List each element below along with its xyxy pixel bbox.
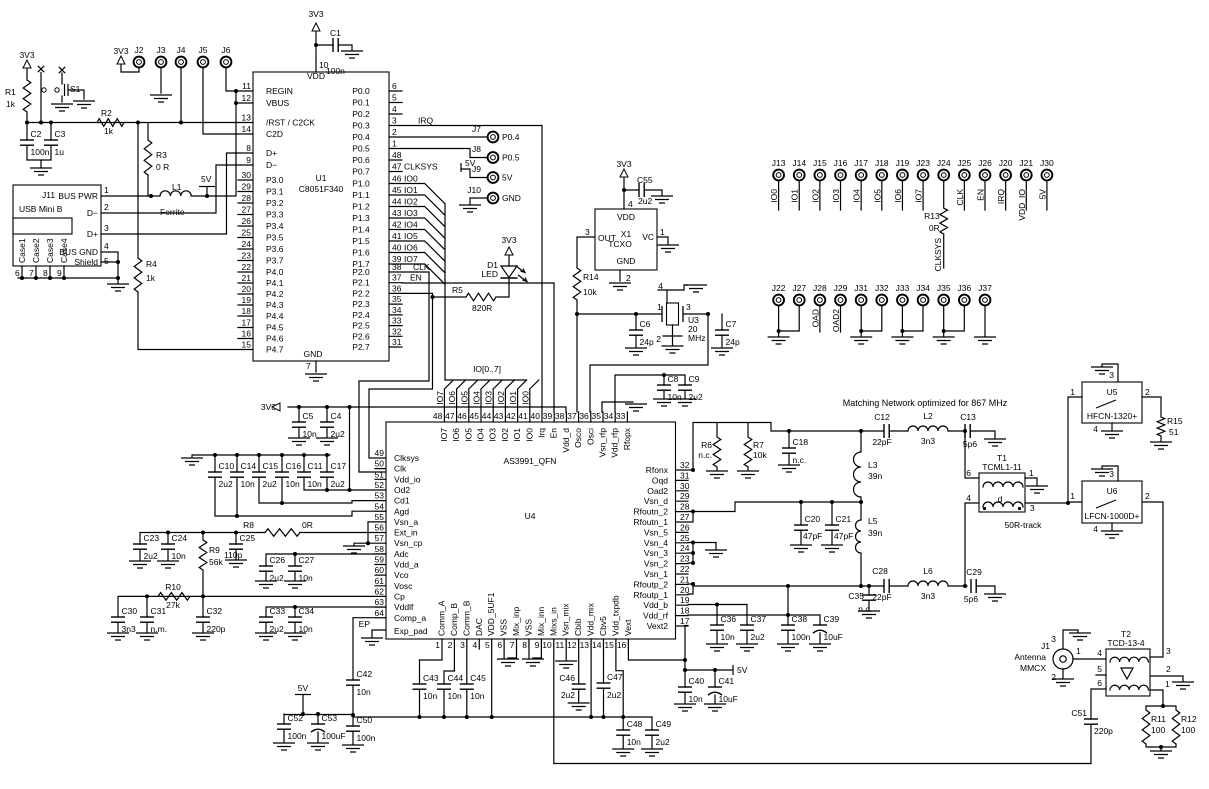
svg-text:1: 1 <box>1029 468 1034 478</box>
svg-text:R13: R13 <box>924 211 940 221</box>
svg-text:C7: C7 <box>726 319 737 329</box>
svg-text:100: 100 <box>1181 725 1195 735</box>
svg-text:IO6: IO6 <box>404 243 418 253</box>
svg-text:5V: 5V <box>201 174 212 184</box>
svg-text:IRQ: IRQ <box>418 116 434 126</box>
svg-text:J24: J24 <box>937 158 951 168</box>
svg-text:Irq: Irq <box>537 428 547 438</box>
svg-text:L5: L5 <box>868 516 878 526</box>
svg-text:J19: J19 <box>896 158 910 168</box>
svg-text:CLK: CLK <box>955 189 965 206</box>
svg-text:4: 4 <box>628 199 633 209</box>
svg-text:19: 19 <box>680 595 690 605</box>
svg-text:5: 5 <box>1097 664 1102 674</box>
svg-text:R9: R9 <box>209 545 220 555</box>
svg-text:8: 8 <box>522 640 527 650</box>
svg-text:1: 1 <box>104 185 109 195</box>
svg-text:D+: D+ <box>87 229 98 239</box>
svg-text:12: 12 <box>567 640 577 650</box>
svg-text:C26: C26 <box>270 555 286 565</box>
svg-text:VSS: VSS <box>499 619 509 636</box>
svg-text:59: 59 <box>375 555 385 565</box>
svg-text:42: 42 <box>392 220 402 230</box>
svg-text:C2D: C2D <box>266 129 283 139</box>
svg-text:6: 6 <box>392 81 397 91</box>
svg-text:P4.5: P4.5 <box>266 323 284 333</box>
svg-text:IO3: IO3 <box>831 189 841 203</box>
svg-text:J15: J15 <box>813 158 827 168</box>
svg-text:C3: C3 <box>55 129 66 139</box>
svg-text:J17: J17 <box>854 158 868 168</box>
svg-text:43: 43 <box>392 208 402 218</box>
svg-text:IO4: IO4 <box>476 428 486 442</box>
svg-text:30: 30 <box>242 170 252 180</box>
svg-text:P3.7: P3.7 <box>266 256 284 266</box>
svg-text:100: 100 <box>1151 725 1165 735</box>
svg-text:Vosc: Vosc <box>394 581 413 591</box>
svg-text:P0.0: P0.0 <box>352 86 370 96</box>
svg-text:C32: C32 <box>207 606 223 616</box>
svg-text:50: 50 <box>375 459 385 469</box>
svg-text:31: 31 <box>680 470 690 480</box>
svg-text:IO4: IO4 <box>404 220 418 230</box>
svg-text:45: 45 <box>392 185 402 195</box>
svg-text:IO6: IO6 <box>893 189 903 203</box>
svg-text:C29: C29 <box>966 567 982 577</box>
svg-text:MHz: MHz <box>688 333 705 343</box>
svg-text:Vsn_rfp: Vsn_rfp <box>598 428 608 458</box>
svg-text:100n: 100n <box>792 632 811 642</box>
svg-text:P0.4: P0.4 <box>502 132 520 142</box>
svg-text:J30: J30 <box>1040 158 1054 168</box>
svg-text:2u2: 2u2 <box>561 690 575 700</box>
svg-text:4: 4 <box>1093 424 1098 434</box>
svg-text:12: 12 <box>242 93 252 103</box>
svg-text:C45: C45 <box>470 673 486 683</box>
svg-text:5p6: 5p6 <box>963 439 977 449</box>
svg-text:5V: 5V <box>465 158 476 168</box>
svg-text:0R: 0R <box>302 520 313 530</box>
svg-text:10n: 10n <box>308 479 322 489</box>
svg-text:Vco: Vco <box>394 570 409 580</box>
svg-text:16: 16 <box>242 329 252 339</box>
svg-text:Comm_B: Comm_B <box>461 600 471 636</box>
svg-text:J16: J16 <box>834 158 848 168</box>
svg-text:C11: C11 <box>308 461 323 471</box>
svg-text:J4: J4 <box>177 45 186 55</box>
svg-text:Comp_a: Comp_a <box>394 613 426 623</box>
svg-text:J8: J8 <box>472 144 481 154</box>
svg-text:Vdd_txpdb: Vdd_txpdb <box>610 595 620 636</box>
svg-text:U5: U5 <box>1107 387 1118 397</box>
svg-text:1u: 1u <box>55 147 65 157</box>
svg-text:En: En <box>549 428 559 439</box>
svg-text:3: 3 <box>104 223 109 233</box>
svg-text:4: 4 <box>966 493 971 503</box>
svg-text:J27: J27 <box>792 283 806 293</box>
svg-text:6: 6 <box>1097 678 1102 688</box>
svg-text:J33: J33 <box>896 283 910 293</box>
svg-text:Vsn_2: Vsn_2 <box>644 559 668 569</box>
svg-text:42: 42 <box>506 411 516 421</box>
svg-text:J22: J22 <box>772 283 786 293</box>
svg-text:J7: J7 <box>472 124 481 134</box>
svg-text:1: 1 <box>1076 646 1081 656</box>
svg-text:VSS: VSS <box>523 619 533 636</box>
svg-text:U6: U6 <box>1107 486 1118 496</box>
svg-text:IO7: IO7 <box>439 428 449 442</box>
svg-text:3V3: 3V3 <box>113 46 128 56</box>
svg-text:2u2: 2u2 <box>263 479 277 489</box>
svg-text:J1: J1 <box>1041 641 1050 651</box>
svg-text:C33: C33 <box>270 606 286 616</box>
svg-text:GND: GND <box>304 349 323 359</box>
svg-text:10n: 10n <box>627 737 641 747</box>
svg-text:2: 2 <box>1051 672 1056 682</box>
svg-text:22: 22 <box>680 564 690 574</box>
svg-text:Rfoutn_1: Rfoutn_1 <box>634 517 669 527</box>
svg-text:39: 39 <box>543 411 553 421</box>
svg-text:3: 3 <box>1030 503 1035 513</box>
svg-text:14: 14 <box>242 124 252 134</box>
svg-text:R4: R4 <box>146 259 157 269</box>
svg-text:IO3: IO3 <box>484 391 494 405</box>
svg-text:VDD: VDD <box>307 71 325 81</box>
svg-text:10n: 10n <box>689 694 703 704</box>
svg-text:Vsn_5: Vsn_5 <box>644 527 668 537</box>
svg-text:Rfoutp_1: Rfoutp_1 <box>634 590 669 600</box>
svg-text:24p: 24p <box>640 337 654 347</box>
svg-text:P2.0: P2.0 <box>352 267 370 277</box>
svg-text:R3: R3 <box>156 150 167 160</box>
svg-text:24p: 24p <box>726 337 740 347</box>
svg-text:Mix_inp: Mix_inp <box>511 606 521 636</box>
svg-text:TCD-13-4: TCD-13-4 <box>1107 638 1145 648</box>
svg-text:28: 28 <box>680 502 690 512</box>
svg-text:R2: R2 <box>101 108 112 118</box>
svg-text:J35: J35 <box>937 283 951 293</box>
svg-text:LED: LED <box>481 269 498 279</box>
svg-text:3: 3 <box>585 227 590 237</box>
svg-text:23: 23 <box>680 554 690 564</box>
svg-text:IO7: IO7 <box>914 189 924 203</box>
svg-text:10n: 10n <box>470 691 484 701</box>
svg-text:C53: C53 <box>322 713 338 723</box>
svg-text:2: 2 <box>104 202 109 212</box>
svg-text:C4: C4 <box>331 411 342 421</box>
svg-text:Vdd_rfp: Vdd_rfp <box>610 428 620 458</box>
svg-text:P3.0: P3.0 <box>266 175 284 185</box>
svg-text:/RST / C2CK: /RST / C2CK <box>266 118 315 128</box>
svg-text:4: 4 <box>1093 524 1098 534</box>
svg-text:Rfonx: Rfonx <box>646 465 669 475</box>
svg-text:Exp_pad: Exp_pad <box>394 626 428 636</box>
svg-text:P2.3: P2.3 <box>352 299 370 309</box>
svg-text:J10: J10 <box>467 185 481 195</box>
svg-text:Case4: Case4 <box>59 238 69 263</box>
svg-text:P4.7: P4.7 <box>266 345 284 355</box>
svg-text:C25: C25 <box>240 533 256 543</box>
svg-text:8: 8 <box>43 268 48 278</box>
svg-text:4: 4 <box>392 104 397 114</box>
svg-text:14: 14 <box>592 640 602 650</box>
svg-text:J6: J6 <box>222 45 231 55</box>
svg-text:32: 32 <box>392 326 402 336</box>
svg-text:Vddlf: Vddlf <box>394 602 414 612</box>
svg-text:2u2: 2u2 <box>331 479 345 489</box>
svg-text:2u2: 2u2 <box>689 392 703 402</box>
svg-text:5: 5 <box>485 640 490 650</box>
svg-text:J32: J32 <box>875 283 889 293</box>
svg-text:L2: L2 <box>923 411 933 421</box>
svg-text:18: 18 <box>242 306 252 316</box>
svg-text:4: 4 <box>1097 648 1102 658</box>
svg-text:10uF: 10uF <box>824 632 843 642</box>
svg-text:6: 6 <box>497 640 502 650</box>
svg-text:Oad2: Oad2 <box>647 486 668 496</box>
svg-text:1: 1 <box>435 640 440 650</box>
svg-text:P1.5: P1.5 <box>352 236 370 246</box>
svg-text:Agd: Agd <box>394 506 409 516</box>
svg-text:63: 63 <box>375 597 385 607</box>
svg-text:IO7: IO7 <box>435 391 445 405</box>
svg-text:C1: C1 <box>330 28 341 38</box>
svg-text:VDD: VDD <box>617 212 635 222</box>
svg-text:40: 40 <box>531 411 541 421</box>
svg-text:27: 27 <box>242 205 252 215</box>
svg-text:29: 29 <box>242 182 252 192</box>
svg-text:C24: C24 <box>172 533 188 543</box>
svg-text:0 R: 0 R <box>156 162 169 172</box>
svg-text:C35: C35 <box>848 591 864 601</box>
svg-text:OUT: OUT <box>598 233 616 243</box>
svg-text:Vsn_4: Vsn_4 <box>644 538 668 548</box>
svg-text:3: 3 <box>460 640 465 650</box>
svg-text:49: 49 <box>375 448 385 458</box>
svg-text:1k: 1k <box>104 126 114 136</box>
svg-text:15: 15 <box>242 340 252 350</box>
svg-text:P2.1: P2.1 <box>352 278 370 288</box>
svg-text:IO4: IO4 <box>852 189 862 203</box>
svg-text:Cbib: Cbib <box>573 618 583 636</box>
svg-text:Ferrite: Ferrite <box>160 207 185 217</box>
svg-text:5: 5 <box>104 256 109 266</box>
svg-text:J28: J28 <box>813 283 827 293</box>
svg-text:P4.3: P4.3 <box>266 300 284 310</box>
svg-text:C15: C15 <box>263 461 279 471</box>
svg-text:P0.2: P0.2 <box>352 109 370 119</box>
svg-text:3n3: 3n3 <box>921 436 935 446</box>
svg-text:P3.3: P3.3 <box>266 210 284 220</box>
svg-text:IO3: IO3 <box>488 428 498 442</box>
svg-text:C20: C20 <box>805 514 821 524</box>
svg-text:50R-track: 50R-track <box>1005 520 1043 530</box>
svg-text:38: 38 <box>392 262 402 272</box>
svg-text:GND: GND <box>502 193 521 203</box>
svg-text:4: 4 <box>658 281 663 291</box>
svg-text:5p6: 5p6 <box>964 594 978 604</box>
svg-text:J3: J3 <box>157 45 166 55</box>
svg-text:4: 4 <box>104 241 109 251</box>
svg-text:9: 9 <box>57 268 62 278</box>
svg-text:C55: C55 <box>637 175 653 185</box>
svg-text:OAD2: OAD2 <box>831 309 841 332</box>
svg-text:62: 62 <box>375 586 385 596</box>
svg-text:34: 34 <box>604 411 614 421</box>
svg-text:2: 2 <box>1166 664 1171 674</box>
svg-text:43: 43 <box>494 411 504 421</box>
svg-text:J25: J25 <box>958 158 972 168</box>
svg-text:P2.6: P2.6 <box>352 331 370 341</box>
svg-text:CLKSYS: CLKSYS <box>404 162 438 172</box>
svg-text:C9: C9 <box>689 374 700 384</box>
svg-text:10n: 10n <box>357 687 371 697</box>
svg-text:C10: C10 <box>219 461 235 471</box>
svg-text:IO1: IO1 <box>508 391 518 405</box>
svg-text:d: d <box>998 494 1003 504</box>
svg-text:2u2: 2u2 <box>656 737 670 747</box>
svg-text:IO2: IO2 <box>404 197 418 207</box>
svg-text:Od2: Od2 <box>394 485 410 495</box>
svg-text:Case3: Case3 <box>45 238 55 263</box>
svg-text:EN: EN <box>976 189 986 201</box>
svg-text:J18: J18 <box>875 158 889 168</box>
svg-text:AS3991_QFN: AS3991_QFN <box>504 456 557 466</box>
svg-text:Osci: Osci <box>585 428 595 445</box>
svg-text:C13: C13 <box>960 412 976 422</box>
svg-text:C8051F340: C8051F340 <box>299 184 344 194</box>
svg-text:C42: C42 <box>357 669 373 679</box>
svg-text:61: 61 <box>375 576 385 586</box>
svg-text:10n: 10n <box>423 691 437 701</box>
svg-text:36: 36 <box>392 283 402 293</box>
svg-text:U1: U1 <box>316 173 327 183</box>
svg-text:35: 35 <box>592 411 602 421</box>
svg-text:2u2: 2u2 <box>219 479 233 489</box>
svg-text:C34: C34 <box>299 606 315 616</box>
svg-text:3: 3 <box>1166 646 1171 656</box>
svg-text:Rfoutp_2: Rfoutp_2 <box>634 579 669 589</box>
svg-text:USB Mini B: USB Mini B <box>19 204 63 214</box>
svg-text:P2.4: P2.4 <box>352 310 370 320</box>
svg-text:22pF: 22pF <box>872 437 891 447</box>
svg-text:Case2: Case2 <box>31 238 41 263</box>
svg-text:IO0: IO0 <box>520 391 530 405</box>
svg-text:J36: J36 <box>958 283 972 293</box>
svg-text:C12: C12 <box>874 412 890 422</box>
svg-text:17: 17 <box>680 616 690 626</box>
svg-text:51: 51 <box>1169 427 1179 437</box>
svg-text:C50: C50 <box>357 715 373 725</box>
svg-text:R5: R5 <box>452 285 463 295</box>
svg-text:8: 8 <box>246 143 251 153</box>
svg-text:64: 64 <box>375 608 385 618</box>
svg-text:0R: 0R <box>929 223 940 233</box>
svg-text:C44: C44 <box>448 673 464 683</box>
svg-text:TCML1-11: TCML1-11 <box>982 462 1022 472</box>
svg-text:P1.1: P1.1 <box>352 190 370 200</box>
svg-text:IO4: IO4 <box>472 391 482 405</box>
svg-text:J34: J34 <box>916 283 930 293</box>
svg-text:IO5: IO5 <box>463 428 473 442</box>
svg-text:Vdd_a: Vdd_a <box>394 560 419 570</box>
svg-text:C23: C23 <box>144 533 160 543</box>
svg-text:Vdd_b: Vdd_b <box>643 600 668 610</box>
svg-text:1: 1 <box>1165 679 1170 689</box>
svg-text:35: 35 <box>392 294 402 304</box>
svg-text:10n: 10n <box>286 479 300 489</box>
svg-text:10n: 10n <box>668 392 682 402</box>
svg-text:Rfopx: Rfopx <box>622 427 632 450</box>
svg-text:C46: C46 <box>559 673 575 683</box>
svg-text:P3.1: P3.1 <box>266 187 284 197</box>
svg-text:20: 20 <box>242 284 252 294</box>
svg-text:L6: L6 <box>923 566 933 576</box>
svg-text:100n: 100n <box>288 731 307 741</box>
svg-text:10n: 10n <box>241 479 255 489</box>
svg-text:Vdd_io: Vdd_io <box>394 474 421 484</box>
svg-text:53: 53 <box>375 491 385 501</box>
svg-text:MMCX: MMCX <box>1020 663 1046 673</box>
svg-text:VBUS: VBUS <box>266 98 289 108</box>
svg-text:DAC: DAC <box>474 618 484 636</box>
svg-text:7: 7 <box>29 268 34 278</box>
svg-text:10k: 10k <box>753 450 767 460</box>
svg-text:1k: 1k <box>6 99 16 109</box>
svg-text:IO2: IO2 <box>810 189 820 203</box>
svg-text:P0.5: P0.5 <box>502 153 520 163</box>
svg-text:Vdd_rf: Vdd_rf <box>643 611 669 621</box>
svg-text:Cp: Cp <box>394 591 405 601</box>
svg-text:Rfoutn_2: Rfoutn_2 <box>634 507 669 517</box>
svg-text:GND: GND <box>617 256 636 266</box>
svg-text:9: 9 <box>535 640 540 650</box>
svg-text:55: 55 <box>375 512 385 522</box>
svg-text:P0.5: P0.5 <box>352 144 370 154</box>
svg-text:10uF: 10uF <box>719 694 738 704</box>
svg-text:1: 1 <box>1070 387 1075 397</box>
svg-text:IO0: IO0 <box>404 174 418 184</box>
svg-text:36: 36 <box>579 411 589 421</box>
svg-text:C38: C38 <box>792 614 808 624</box>
svg-text:3V3: 3V3 <box>616 159 631 169</box>
svg-text:25: 25 <box>242 228 252 238</box>
svg-text:2: 2 <box>392 127 397 137</box>
svg-text:IO6: IO6 <box>447 391 457 405</box>
svg-text:P1.4: P1.4 <box>352 225 370 235</box>
svg-text:P4.1: P4.1 <box>266 278 284 288</box>
svg-text:C51: C51 <box>1071 708 1087 718</box>
svg-text:J23: J23 <box>916 158 930 168</box>
svg-text:Vsn_d: Vsn_d <box>644 496 668 506</box>
svg-text:C47: C47 <box>607 672 623 682</box>
svg-text:29: 29 <box>680 491 690 501</box>
svg-text:C52: C52 <box>288 713 304 723</box>
svg-text:100uF: 100uF <box>322 731 346 741</box>
svg-text:C41: C41 <box>719 676 735 686</box>
svg-text:24: 24 <box>242 239 252 249</box>
svg-text:54: 54 <box>375 501 385 511</box>
svg-text:Vsn_3: Vsn_3 <box>644 548 668 558</box>
svg-text:J2: J2 <box>135 45 144 55</box>
svg-text:P1.3: P1.3 <box>352 213 370 223</box>
svg-text:Oqd: Oqd <box>652 475 668 485</box>
svg-text:P2.2: P2.2 <box>352 288 370 298</box>
svg-text:57: 57 <box>375 533 385 543</box>
svg-text:IO2: IO2 <box>496 391 506 405</box>
svg-text:IO1: IO1 <box>512 428 522 442</box>
svg-text:7: 7 <box>306 361 311 371</box>
